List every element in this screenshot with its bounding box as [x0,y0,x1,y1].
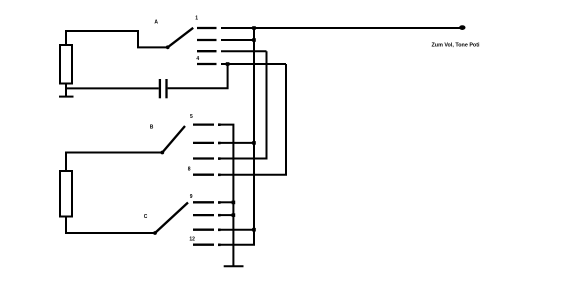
contact 12 pin dot [218,244,221,247]
contact 11 pin dot [218,229,221,232]
junction node 1 [252,26,256,30]
wire R1 top to switch A pole [66,31,166,47]
wire R1 bottom to capacitor [66,87,159,89]
wire contact 10 to ground bus [219,214,234,216]
resistor R2 [60,171,72,217]
junction node 4 [226,62,230,66]
switch A blade [168,28,194,48]
contact 6 dash [193,142,214,144]
switch A pole junction [166,45,170,49]
svg-text:1: 1 [195,16,198,22]
switch B blade [162,126,185,153]
svg-text:A: A [154,20,158,26]
svg-text:12: 12 [189,236,195,242]
ground G1 [59,96,74,98]
wire contact 1 to terminal [221,27,463,29]
contact 6 pin dot [218,142,221,145]
wire riser contact3 to contact7 [219,51,267,158]
wire R2 bottom to switch C pole [66,218,154,234]
svg-text:4: 4 [196,56,199,62]
contact 8 dash [193,174,214,176]
wire contact 5 to ground bus [219,125,234,266]
ground G2 [224,265,244,267]
junction node 11 [252,228,256,232]
contact 9 pin dot [218,201,221,204]
wire R2 top to switch B pole [66,153,161,171]
wire contact 4 to riser [221,63,286,65]
resistor R1 [60,45,72,84]
terminal to pots [459,25,465,30]
wire contact 9 to ground bus [219,201,234,203]
capacitor C1 right plate [165,79,167,98]
svg-text:9: 9 [190,194,193,200]
switch B pole junction [160,151,164,155]
contact 7 pin dot [218,157,221,160]
contact 5 pin dot [218,123,221,126]
wire riser contact4 to contact8 [219,64,287,175]
svg-text:Zum Vol, Tone Poti: Zum Vol, Tone Poti [431,43,480,49]
junction node 2 [252,38,256,42]
junction node 6 [252,141,256,145]
contact 10 pin dot [218,214,221,217]
svg-text:B: B [150,124,154,130]
wire contact 3 to riser [221,50,267,52]
wire capacitor to node 4 riser [168,65,228,88]
contact 2 dash [197,39,217,41]
contact 3 dash [197,50,217,52]
switch C blade [155,203,188,234]
switch C pole junction [153,231,157,235]
contact 4 dash [197,63,217,65]
junction node 10 [232,213,236,217]
junction node 9 [232,201,236,205]
contact 10 dash [193,214,214,216]
contact 12 dash [193,244,214,246]
svg-text:8: 8 [188,167,191,173]
contact 8 pin dot [218,174,221,177]
svg-text:5: 5 [190,114,193,120]
capacitor C1 left plate [159,79,161,98]
wire bus node1-node12 vertical [219,28,255,245]
contact 1 dash [197,27,217,29]
contact 9 dash [193,201,214,203]
wire R1 bottom to ground [65,85,67,97]
contact 7 dash [193,157,214,159]
wire contact 11 to bus [219,229,255,231]
svg-text:C: C [144,214,148,220]
wire contact 6 to bus [219,142,255,144]
contact 5 dash [193,123,214,125]
contact 11 dash [193,229,214,231]
wire contact 2 to bus [221,39,254,41]
